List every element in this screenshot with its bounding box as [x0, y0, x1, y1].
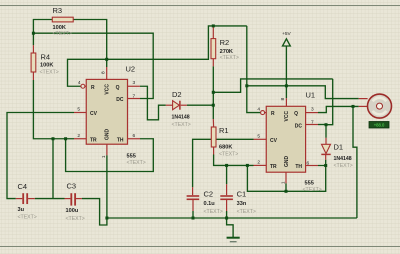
- node TR line to loop: [64, 137, 67, 140]
- wire pin stub U1 pin6: [306, 165, 318, 167]
- op-amp U1 555 timer body: [257, 91, 322, 194]
- wire pin stub U1 pin1: [285, 172, 287, 183]
- svg-text:<TEXT>: <TEXT>: [220, 55, 239, 61]
- svg-text:5: 5: [77, 107, 80, 113]
- wire pin stub U2 pin8: [106, 67, 108, 79]
- node U1 pin1 at loop bottom: [285, 190, 288, 193]
- node R2 top: [212, 24, 215, 27]
- svg-text:1: 1: [101, 155, 107, 158]
- wire pin stub D1 cathode: [325, 155, 327, 160]
- wire ground rail right riser to speaker line: [353, 106, 357, 218]
- svg-text:Q: Q: [294, 111, 298, 117]
- svg-text:VCC: VCC: [105, 84, 111, 95]
- node C2 bottom at ground rail: [192, 217, 195, 220]
- wire pin stub U1 pin7: [306, 124, 318, 126]
- wire line A down to pin7 node: [326, 79, 333, 125]
- sheet bottom border: [0, 246, 400, 248]
- wire U2 pin3 zigzag to D2 anode: [140, 86, 166, 120]
- wire R2 bottom column: [212, 66, 214, 119]
- wire R1 bottom to U1 TR line: [214, 155, 254, 166]
- svg-text:GND: GND: [105, 129, 111, 141]
- wire TR-TH loop of U1: [247, 165, 325, 191]
- wire U1 pin3 up to speaker bottom line: [318, 106, 359, 112]
- svg-text:D2: D2: [172, 90, 182, 99]
- svg-text:0.1u: 0.1u: [204, 201, 216, 207]
- op-amp U2 555 timer body: [77, 65, 146, 167]
- svg-text:U1: U1: [306, 91, 316, 100]
- svg-text:CV: CV: [270, 138, 278, 144]
- svg-text:C2: C2: [204, 189, 214, 198]
- svg-text:TR: TR: [270, 164, 277, 170]
- svg-text:7: 7: [133, 94, 136, 100]
- svg-text:DC: DC: [295, 123, 303, 129]
- resistor R2: [211, 38, 239, 61]
- svg-text:R1: R1: [219, 126, 229, 135]
- node TR line to C3/C4: [52, 137, 55, 140]
- wire R3 right to U2 pin8: [73, 20, 107, 68]
- svg-text:270K: 270K: [220, 49, 233, 55]
- node D2 cathode R1 top: [212, 104, 215, 107]
- capacitor C4: [18, 182, 37, 221]
- svg-text:C3: C3: [67, 182, 77, 191]
- diode D1 1N4148: [321, 143, 353, 170]
- wire R4 bottom to TR line: [33, 80, 74, 139]
- svg-text:U2: U2: [126, 65, 136, 74]
- svg-text:R2: R2: [220, 38, 230, 47]
- resistor R4: [31, 53, 59, 76]
- wire pin stub U2 pin4: [85, 85, 86, 87]
- wire pin stub speaker bottom: [359, 105, 368, 107]
- resistor R3: [52, 6, 73, 37]
- svg-text:R3: R3: [53, 6, 63, 15]
- svg-text:1N4148: 1N4148: [334, 156, 352, 162]
- wire pin stub U1 pin2: [254, 164, 267, 166]
- node R2 bottom output: [212, 91, 215, 94]
- svg-text:555: 555: [305, 181, 314, 187]
- svg-text:1N4148: 1N4148: [172, 115, 190, 121]
- wire U1 pin7 to D1 node: [318, 124, 326, 126]
- svg-text:R4: R4: [41, 53, 51, 62]
- svg-text:+5V: +5V: [282, 31, 291, 37]
- wire output node step to line A: [213, 79, 332, 92]
- wire pin stub U2 pin2: [74, 138, 86, 140]
- capacitor C3: [66, 182, 85, 223]
- svg-text:2: 2: [77, 133, 80, 139]
- svg-text:1: 1: [280, 181, 286, 184]
- svg-text:<TEXT>: <TEXT>: [53, 31, 72, 37]
- wire D1 anode to pin7 node: [325, 125, 327, 138]
- svg-text:TH: TH: [295, 164, 302, 170]
- node U1 pin4 column at VCC line B: [245, 84, 248, 87]
- diode D2 1N4148: [172, 90, 191, 128]
- node C1 bottom at ground rail: [225, 217, 228, 220]
- speaker LS1: [368, 94, 392, 118]
- svg-text:555: 555: [127, 154, 136, 160]
- resistor R1: [211, 126, 238, 157]
- node ground rail at U2 pin1: [105, 217, 108, 220]
- wire D1 cathode to TH node: [325, 160, 327, 166]
- svg-text:<TEXT>: <TEXT>: [66, 216, 85, 222]
- wire pin stub R1 top: [212, 119, 214, 127]
- wire U2 CV to C4 left: [7, 113, 74, 199]
- wire C3 right to ground rail: [82, 199, 107, 225]
- wire pin stub U1 pin5: [254, 138, 267, 140]
- capacitor C1: [220, 189, 256, 215]
- wire pin stub U2 pin5: [74, 112, 86, 114]
- wire pin stub U2 pin6: [128, 138, 141, 140]
- svg-text:3: 3: [311, 106, 314, 112]
- wire C4 to C3: [35, 198, 65, 200]
- node R3/R4/DC junction: [32, 32, 35, 35]
- wire pin stub speaker top: [359, 98, 368, 100]
- svg-text:33n: 33n: [237, 201, 247, 207]
- svg-text:680K: 680K: [219, 144, 232, 150]
- svg-text:VCC: VCC: [284, 111, 290, 122]
- svg-text:TR: TR: [90, 137, 97, 143]
- svg-text:<TEXT>: <TEXT>: [237, 209, 256, 215]
- wire pin stub C2 top: [192, 187, 194, 195]
- svg-text:<TEXT>: <TEXT>: [172, 122, 191, 128]
- wire pin stub U2 pin1: [106, 144, 108, 155]
- wire pin stub C4 right: [28, 198, 35, 200]
- wire pin stub C1 top: [226, 184, 228, 195]
- node +5V at VCC line B: [285, 84, 288, 87]
- svg-text:3: 3: [133, 80, 136, 86]
- svg-text:3u: 3u: [18, 207, 25, 213]
- wire pin stub C1 bottom: [226, 200, 228, 211]
- wire R3 left lead: [33, 20, 52, 46]
- wire ground rail: [107, 217, 357, 219]
- wire VCC rail upper left: [68, 26, 247, 86]
- svg-text:<TEXT>: <TEXT>: [219, 151, 238, 157]
- svg-text:6: 6: [307, 160, 310, 166]
- svg-text:4: 4: [257, 106, 260, 112]
- svg-text:6: 6: [133, 133, 136, 139]
- wire U1 pin1 ground stub: [285, 183, 287, 191]
- node speaker bottom riser: [352, 105, 355, 108]
- svg-text:C1: C1: [237, 189, 247, 198]
- svg-text:2: 2: [257, 159, 260, 165]
- svg-text:C4: C4: [18, 182, 28, 191]
- wire U2 pin1 ground column: [106, 155, 108, 218]
- wire pin stub C3 right: [76, 198, 82, 200]
- svg-text:+88.0: +88.0: [374, 123, 385, 128]
- svg-text:100K: 100K: [40, 63, 53, 69]
- wire pin stub R4 top: [32, 45, 34, 53]
- svg-text:D1: D1: [334, 143, 344, 152]
- wire pin stub U1 pin3: [306, 112, 318, 114]
- U1 pin circle on R pin: [261, 111, 265, 115]
- power +5V symbol: [282, 31, 291, 46]
- wire C2 bottom: [192, 211, 194, 218]
- wire C1 bottom: [226, 211, 228, 218]
- wire C3 C4 timing node drop: [52, 139, 54, 199]
- wire pin stub C4 left: [16, 198, 22, 200]
- wire pin stub D2 cathode: [181, 104, 187, 106]
- wire pin stub R4 bottom: [32, 72, 34, 80]
- ground symbol: [227, 238, 240, 242]
- svg-text:CV: CV: [90, 111, 98, 117]
- wire +5V stem: [285, 46, 287, 98]
- svg-text:Q: Q: [116, 85, 120, 91]
- svg-text:DC: DC: [116, 97, 124, 103]
- sheet top border: [0, 5, 400, 7]
- wire U1 pin4 reset column: [247, 26, 261, 113]
- node VCC at U2 pin8 column: [105, 58, 108, 61]
- svg-text:R: R: [271, 111, 275, 117]
- node C1 top at U1 TR line: [225, 164, 228, 167]
- svg-text:7: 7: [311, 119, 314, 125]
- wire TR-TH loop of U2: [66, 139, 154, 172]
- wire C2 top to U1 CV: [193, 139, 254, 187]
- wire pin stub C3 left: [65, 198, 71, 200]
- wire pin stub U2 pin7: [128, 98, 141, 100]
- svg-text:GND: GND: [284, 156, 290, 168]
- svg-text:TH: TH: [117, 137, 124, 143]
- svg-text:<TEXT>: <TEXT>: [18, 215, 37, 221]
- voltage probe readout box: [369, 122, 389, 129]
- wire D2 cathode to node: [187, 104, 213, 106]
- wire pin stub R1 bottom: [213, 147, 215, 155]
- wire pin stub R2 top: [212, 26, 214, 39]
- wire pin stub R2 bottom: [212, 59, 214, 67]
- svg-text:R: R: [91, 85, 95, 91]
- U2 pin circle on R pin: [81, 84, 85, 88]
- svg-text:4: 4: [78, 80, 81, 86]
- svg-text:100K: 100K: [53, 25, 66, 31]
- wire VCC line B to speaker top: [247, 86, 359, 99]
- svg-text:<TEXT>: <TEXT>: [303, 187, 322, 193]
- wire ground symbol stem: [227, 218, 234, 237]
- svg-text:<TEXT>: <TEXT>: [127, 160, 146, 166]
- svg-text:<TEXT>: <TEXT>: [334, 163, 353, 169]
- svg-text:<TEXT>: <TEXT>: [204, 209, 223, 215]
- node U1 pin7 D1 anode: [325, 123, 328, 126]
- wire pin stub U2 pin3: [128, 85, 140, 87]
- wire DC node horizontal to U2 pin7: [33, 33, 153, 98]
- node U1 TH D1 loop: [324, 164, 327, 167]
- wire pin stub D2 anode: [166, 104, 173, 106]
- svg-text:5: 5: [257, 133, 260, 139]
- svg-text:100u: 100u: [66, 208, 79, 214]
- wire pin stub U1 pin8: [285, 98, 287, 106]
- svg-text:8: 8: [280, 98, 286, 101]
- wire pin stub D1 anode: [325, 138, 327, 145]
- svg-text:<TEXT>: <TEXT>: [40, 70, 59, 76]
- capacitor C2: [187, 189, 223, 215]
- wire pin stub U1 pin4: [265, 112, 267, 114]
- wire C1 top lead: [226, 165, 228, 184]
- wire pin stub C2 bottom: [192, 200, 194, 211]
- svg-text:8: 8: [101, 71, 107, 74]
- node U1 TR line to loop: [246, 164, 249, 167]
